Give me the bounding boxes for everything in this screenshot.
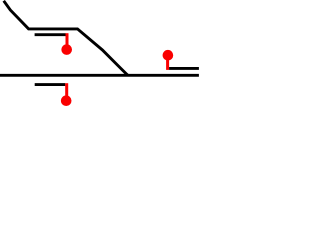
wire: signal B berth track stub (35, 83, 66, 86)
signal C (red, dot above) (163, 50, 174, 70)
wire: signal A berth track stub (35, 33, 66, 36)
wire: main track line (0, 74, 199, 77)
signal B (red, dot below) (61, 83, 72, 106)
wire: branch track (diagonal from top edge, upper siding, diagonal down to junction) (4, 1, 128, 76)
signal A (red, dot below) (61, 33, 72, 55)
wire: signal C berth track stub (169, 67, 199, 70)
